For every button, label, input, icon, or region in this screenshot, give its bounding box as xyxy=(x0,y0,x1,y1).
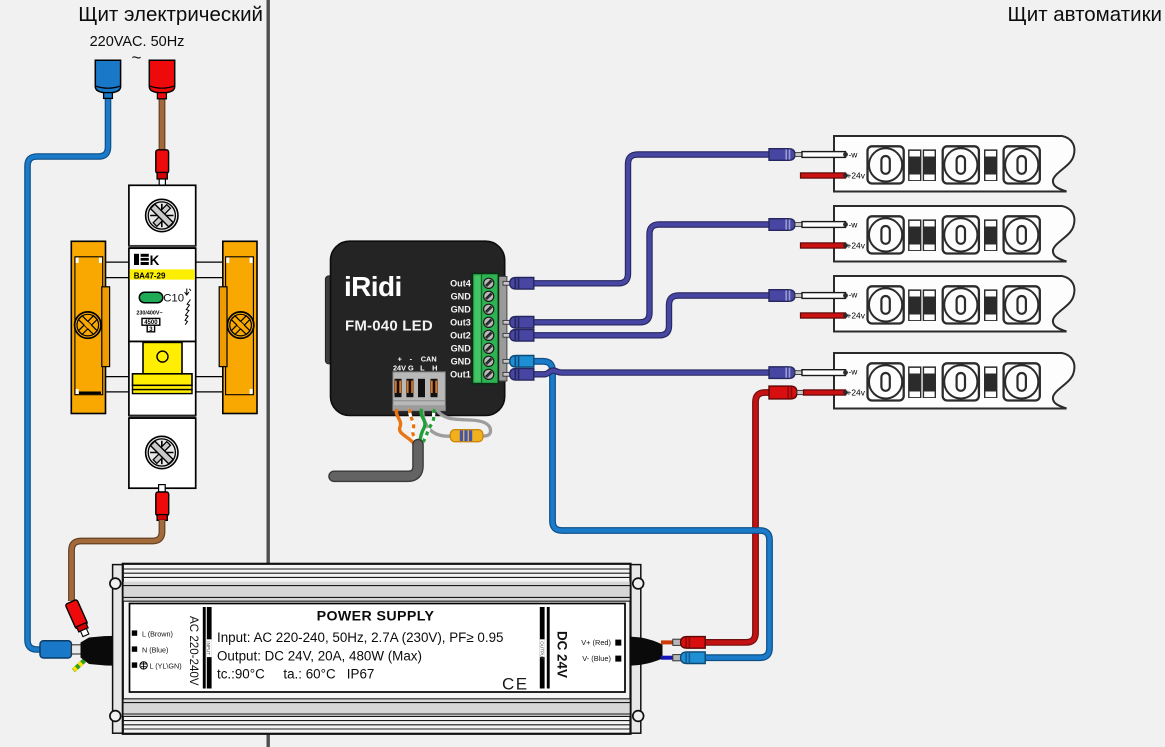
terminator resistor 120R xyxy=(450,430,483,442)
wire Out3 to LED strip 2 xyxy=(534,225,770,323)
svg-text:V- (Blue): V- (Blue) xyxy=(582,654,611,663)
circuit breaker IEK BA47-29 top terminal box xyxy=(129,185,196,246)
svg-text:Out2: Out2 xyxy=(450,331,471,341)
svg-text:230/400V~: 230/400V~ xyxy=(136,310,162,316)
breaker lower divider xyxy=(129,416,196,419)
svg-text:GND: GND xyxy=(451,344,472,354)
Out2 ferrule xyxy=(510,330,534,342)
bus cable to controller xyxy=(334,445,418,477)
svg-text:GND: GND xyxy=(451,357,472,367)
wire CAN H green-white xyxy=(423,409,435,442)
svg-text:+24v: +24v xyxy=(847,241,866,251)
4-pin connector xyxy=(393,372,446,411)
red ferrule above breaker xyxy=(156,150,169,186)
green terminal block xyxy=(472,273,498,383)
supply connector blue (N) xyxy=(95,60,120,98)
DIN rail lines left bottom xyxy=(106,377,130,392)
4500 rating box xyxy=(142,318,160,325)
wire Out4 to LED strip 1 xyxy=(534,155,770,284)
breaker label section xyxy=(129,248,196,341)
iRidi controller body xyxy=(331,241,505,415)
iRidi controller left flange xyxy=(325,276,333,364)
wire G orange-white xyxy=(410,409,417,443)
wire V+ red from PSU to LED strip 4 xyxy=(704,393,770,643)
Out4 ferrule xyxy=(510,278,534,290)
svg-text:OUTPUT: OUTPUT xyxy=(540,641,545,660)
PSU bottom ribs xyxy=(124,699,630,717)
svg-text:Output: DC 24V, 20A, 480W (Max: Output: DC 24V, 20A, 480W (Max) xyxy=(217,648,422,663)
PSU top ribs xyxy=(123,569,630,577)
terminal screws xyxy=(484,278,494,379)
svg-text:~: ~ xyxy=(132,48,142,67)
DIN rail lines right top xyxy=(196,262,224,278)
terminal labels xyxy=(450,279,472,380)
PSU output legend xyxy=(581,638,621,663)
svg-text:CE: CE xyxy=(502,675,529,694)
LED strip 3 xyxy=(834,276,1074,332)
wire L brown from supply connector to breaker xyxy=(159,96,166,152)
svg-text:DC 24V: DC 24V xyxy=(555,631,570,678)
LED strip 2 xyxy=(834,206,1074,262)
breaker top terminal screw xyxy=(145,198,179,232)
svg-text:24V: 24V xyxy=(393,363,406,372)
svg-text:Out1: Out1 xyxy=(450,370,471,380)
yellow toggle lever xyxy=(133,342,193,393)
red ferrule below breaker xyxy=(156,492,169,520)
panel divider line xyxy=(267,0,270,747)
wire L brown from breaker to PSU input xyxy=(72,520,163,601)
PSU V+ pigtail and red ferrule xyxy=(661,637,705,649)
ferrule and white lead into strip 3 -w xyxy=(769,290,848,302)
LED strip 1 xyxy=(834,136,1074,192)
red ferrule diagonal at PSU input xyxy=(65,599,92,638)
svg-text:N (Blue): N (Blue) xyxy=(142,645,168,654)
svg-text:H: H xyxy=(432,363,437,372)
terminal pins xyxy=(503,281,510,376)
svg-text:L (YL\GN): L (YL\GN) xyxy=(150,661,182,670)
DIN clip right xyxy=(219,241,257,413)
svg-text:Input: AC 220-240, 50Hz, 2.7A: Input: AC 220-240, 50Hz, 2.7A (230V), PF… xyxy=(217,630,504,645)
svg-text:ВА47-29: ВА47-29 xyxy=(134,271,166,280)
breaker toggle section xyxy=(129,342,196,416)
class 3 box xyxy=(147,325,154,332)
trip curve symbol xyxy=(185,289,191,296)
wire Out1 to LED strip 4 xyxy=(534,371,770,375)
breaker bottom terminal screw xyxy=(145,435,179,469)
svg-text:Щит автоматики: Щит автоматики xyxy=(1008,3,1162,26)
red +24v stub of strip 1 xyxy=(801,173,848,178)
wire 24V+ orange xyxy=(396,409,414,444)
svg-text:Out3: Out3 xyxy=(450,318,471,328)
wire Out2 to LED strip 3 xyxy=(534,296,770,336)
svg-text:-w: -w xyxy=(849,150,859,160)
svg-text:AC 220-240V: AC 220-240V xyxy=(187,616,200,686)
ferrule and white lead into strip 2 -w xyxy=(769,219,848,231)
svg-text:C10: C10 xyxy=(163,292,184,304)
red +24v stub of strip 2 xyxy=(801,243,848,248)
PSU output black bars xyxy=(540,607,545,689)
wire N blue from supply connector to PSU input xyxy=(28,95,109,650)
svg-text:-w: -w xyxy=(849,367,859,377)
breaker bottom terminal box xyxy=(129,418,196,488)
svg-text:G: G xyxy=(408,363,414,372)
wire CAN L green xyxy=(419,409,425,444)
LED strip 4 xyxy=(834,353,1074,409)
breaker section divider xyxy=(129,245,196,248)
PSU label plate xyxy=(130,604,626,693)
red ferrule and lead into strip 4 +24v xyxy=(769,386,848,399)
DIN rail lines right bottom xyxy=(196,377,224,392)
PSU output cable gland xyxy=(630,637,663,666)
PE wire yellow-green stub xyxy=(74,658,88,671)
svg-text:GND: GND xyxy=(451,292,472,302)
svg-text:iRidi: iRidi xyxy=(344,271,402,302)
svg-text:POWER SUPPLY: POWER SUPPLY xyxy=(317,608,435,624)
svg-text:L: L xyxy=(420,363,425,372)
svg-text:V+ (Red): V+ (Red) xyxy=(581,638,611,647)
CAN/power port labels xyxy=(393,355,437,373)
wire V- blue from controller GND to PSU xyxy=(534,361,770,657)
ferrule and white lead into strip 1 -w xyxy=(769,149,848,161)
Out1 ferrule xyxy=(510,369,534,381)
svg-text:+24v: +24v xyxy=(847,171,866,181)
svg-text:GND: GND xyxy=(451,305,472,315)
DIN clip left xyxy=(71,241,109,413)
svg-text:INPUT: INPUT xyxy=(206,641,211,655)
svg-text:Out4: Out4 xyxy=(450,279,472,289)
Out3 ferrule xyxy=(510,317,534,329)
yellow model strip BA47-29 xyxy=(130,269,195,279)
PSU input black bars xyxy=(203,607,206,689)
ferrule and white lead into strip 4 -w xyxy=(769,367,848,379)
PSU mounting ear right xyxy=(630,565,643,734)
svg-text:L (Brown): L (Brown) xyxy=(142,629,173,638)
blue ferrule at PSU input xyxy=(40,641,82,658)
PSU input cable gland xyxy=(81,636,125,666)
svg-text:K: K xyxy=(150,253,160,268)
PSU mounting ear left xyxy=(110,565,123,734)
supply connector red (L) xyxy=(149,60,174,98)
white neck below breaker xyxy=(159,485,166,492)
contact plate behind terminal xyxy=(499,277,507,382)
svg-text:tc.:90°C ta.: 60°C IP67: tc.:90°C ta.: 60°C IP67 xyxy=(217,667,374,682)
IEK logo xyxy=(134,253,160,268)
GND blue ferrule xyxy=(510,356,534,368)
PSU V- pigtail and blue ferrule xyxy=(661,652,705,664)
red +24v stub of strip 3 xyxy=(801,313,848,318)
svg-text:-w: -w xyxy=(849,220,859,230)
green indicator pill xyxy=(139,292,163,302)
PSU body xyxy=(123,564,631,734)
PSU input wire legend xyxy=(132,629,182,670)
DIN rail lines left top xyxy=(106,262,130,278)
CAN terminator wire xyxy=(423,409,491,437)
svg-text:Щит электрический: Щит электрический xyxy=(78,3,263,26)
svg-text:-w: -w xyxy=(849,290,859,300)
svg-text:+24v: +24v xyxy=(847,311,866,321)
svg-text:+24v: +24v xyxy=(847,388,866,398)
svg-text:FM-040 LED: FM-040 LED xyxy=(345,317,433,334)
